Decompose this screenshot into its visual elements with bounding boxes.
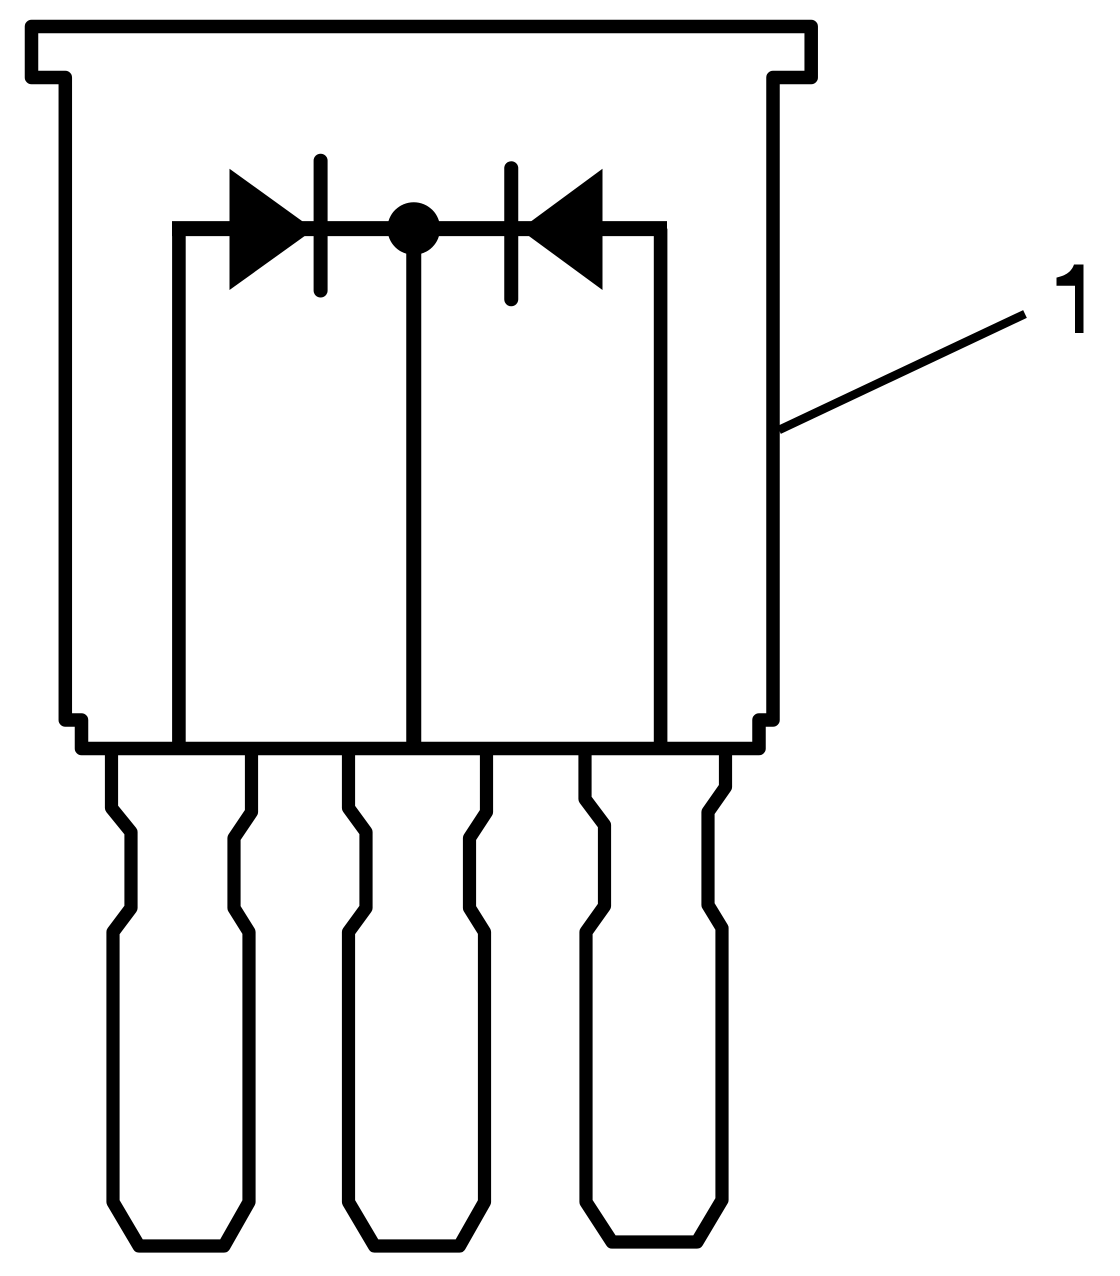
fuse housing body 1 bbox=[32, 27, 812, 749]
terminal blade 2 bbox=[349, 749, 487, 1247]
wire: top horizontal bus bbox=[172, 221, 667, 236]
diode D2 cathode bar bbox=[504, 168, 518, 299]
leader line to reference 1 bbox=[779, 314, 1025, 430]
terminal blade 3 bbox=[585, 749, 726, 1243]
reference numeral 1 bbox=[1057, 265, 1084, 334]
node junction dot bbox=[387, 202, 440, 255]
diode D1 cathode bar bbox=[314, 161, 328, 291]
terminal blade 1 bbox=[112, 749, 252, 1247]
diode D1 (left, anode left) triangle bbox=[230, 169, 314, 290]
wire: center conductor bbox=[406, 229, 421, 749]
wire: right conductor bbox=[654, 229, 668, 749]
diode D2 (right, anode right) triangle bbox=[520, 169, 603, 290]
wire: left conductor bbox=[172, 229, 186, 749]
